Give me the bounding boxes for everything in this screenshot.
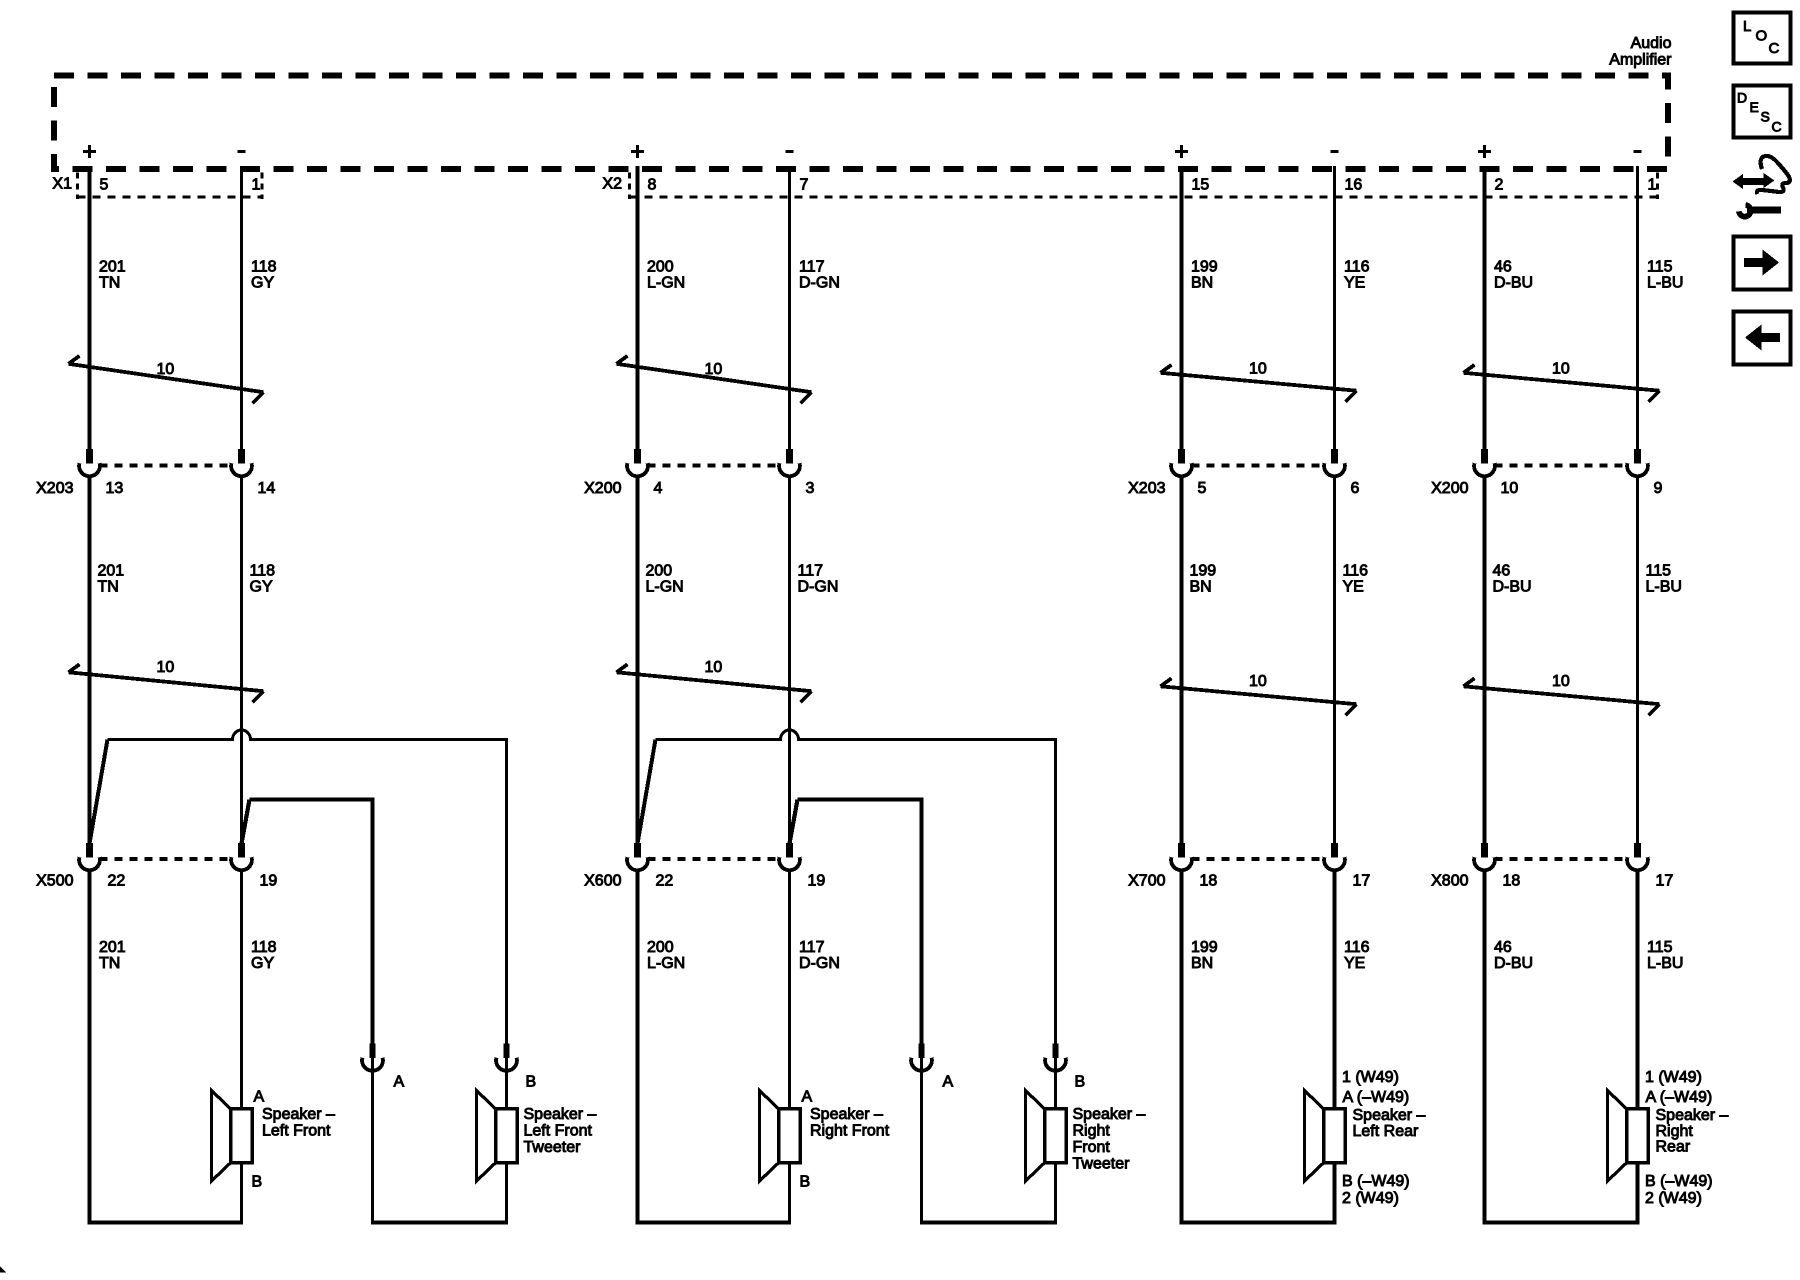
svg-text:118: 118: [251, 259, 277, 276]
svg-text:GY: GY: [251, 955, 274, 972]
svg-text:GY: GY: [250, 579, 273, 596]
wire label 46 D-BU (row3): [1494, 939, 1533, 972]
svg-text:115: 115: [1646, 563, 1672, 580]
bottom rail rear speaker: [1483, 1221, 1640, 1225]
svg-text:116: 116: [1344, 939, 1370, 956]
svg-text:117: 117: [799, 939, 825, 956]
svg-text:46: 46: [1493, 563, 1511, 580]
svg-text:46: 46: [1494, 939, 1512, 956]
branch wire to tweeter B (hop over 118 wire): [108, 730, 507, 1044]
speaker terminal labels bottom: [1342, 1173, 1410, 1207]
in-line connector X500 pin 22 symbol: [79, 843, 100, 870]
wire label 117 D-GN (row3): [799, 939, 840, 972]
wire 46 D-BU segment X200 to X800: [1483, 478, 1487, 844]
svg-text:L-BU: L-BU: [1647, 955, 1683, 972]
svg-text:Rear: Rear: [1656, 1139, 1691, 1156]
svg-text:10: 10: [1552, 673, 1570, 690]
wire 201 TN tweeter B to speaker: [505, 1058, 508, 1111]
wire label 118 GY (row2): [250, 563, 276, 596]
wire label 199 BN (row1): [1191, 259, 1218, 292]
wire label 115 L-BU (row3): [1647, 939, 1683, 972]
speaker B wire to bottom rail: [240, 1163, 243, 1225]
svg-text:10: 10: [1501, 480, 1519, 497]
wire 200 L-GN segment below X600: [636, 872, 640, 1225]
X600 dashed connector line: [648, 857, 780, 861]
svg-text:C: C: [1772, 119, 1782, 135]
wire label 117 D-GN (row1): [799, 259, 840, 292]
svg-text:Right: Right: [1073, 1123, 1111, 1140]
twisted pair symbol 10 (upper, group 1): [69, 356, 264, 403]
svg-text:201: 201: [99, 939, 126, 956]
speaker terminal labels bottom: [1645, 1173, 1713, 1207]
minus sign col 2: [237, 150, 245, 153]
svg-text:Speaker –: Speaker –: [1353, 1107, 1426, 1124]
jump/link icon (double arrow with wrench): [1733, 156, 1790, 217]
in-line connector X203 pin 13 symbol: [79, 449, 100, 476]
svg-text:B: B: [1075, 1074, 1086, 1091]
in-line connector X203 pin 14 symbol: [231, 449, 252, 476]
wire 200 L-GN segment amp to X200: [636, 166, 640, 450]
X700 dashed connector line: [1192, 857, 1325, 861]
X800 dashed connector line: [1495, 857, 1628, 861]
bottom rail speaker: [88, 1221, 243, 1225]
plus sign col 7: [1478, 145, 1491, 158]
svg-text:Tweeter: Tweeter: [1073, 1156, 1131, 1173]
svg-text:B (–W49): B (–W49): [1645, 1173, 1713, 1190]
svg-text:Left Front: Left Front: [524, 1123, 593, 1140]
svg-text:L-GN: L-GN: [647, 275, 685, 292]
svg-text:L-BU: L-BU: [1647, 275, 1683, 292]
tweeter terminal A pin symbol: [362, 1044, 383, 1071]
in-line connector X203 pin 6 symbol: [1324, 449, 1345, 476]
svg-text:D-BU: D-BU: [1494, 275, 1533, 292]
bottom rail speaker: [636, 1221, 791, 1225]
wire label 199 BN (row3): [1191, 939, 1218, 972]
twisted pair symbol 10 (lower, group 4): [1464, 673, 1660, 715]
forward arrow icon box: [1734, 237, 1791, 290]
wire 118 GY segment to speaker A: [240, 872, 243, 1111]
svg-text:201: 201: [98, 563, 125, 580]
svg-text:X200: X200: [584, 480, 621, 497]
branch wire to tweeter B (hop over 117 wire): [656, 730, 1056, 1044]
wire label 201 TN (row1): [99, 259, 126, 292]
svg-text:200: 200: [647, 939, 674, 956]
speaker terminal labels top: [1342, 1069, 1409, 1106]
svg-text:10: 10: [157, 659, 175, 676]
LOC icon letters: [1743, 18, 1780, 57]
svg-text:X800: X800: [1431, 873, 1468, 890]
plus sign col 3: [631, 145, 644, 158]
svg-text:D-GN: D-GN: [799, 275, 840, 292]
svg-text:116: 116: [1343, 563, 1369, 580]
svg-text:E: E: [1750, 99, 1759, 115]
bottom rail tweeter: [371, 1221, 508, 1225]
svg-text:X2: X2: [602, 176, 622, 193]
svg-text:200: 200: [646, 563, 673, 580]
svg-text:Right: Right: [1656, 1123, 1694, 1140]
speaker – left front tweeter: [477, 1091, 518, 1182]
splice diagonal into pin 19: [242, 800, 250, 844]
svg-text:10: 10: [705, 659, 723, 676]
svg-text:Left Front: Left Front: [262, 1123, 331, 1140]
audio amplifier dashed box: [54, 76, 1668, 170]
svg-text:14: 14: [258, 480, 276, 497]
wire 117 D-GN segment X200 to X600: [788, 478, 791, 844]
svg-text:L-GN: L-GN: [646, 579, 684, 596]
tweeter name text: [1073, 1106, 1146, 1173]
svg-text:A: A: [943, 1074, 954, 1091]
connector X2 dotted box: [630, 173, 1658, 200]
wire label 201 TN (row2): [98, 563, 125, 596]
forward arrow: [1744, 250, 1779, 276]
in-line connector X600 pin 19 symbol: [779, 843, 800, 870]
svg-text:199: 199: [1191, 939, 1218, 956]
svg-text:22: 22: [108, 873, 126, 890]
in-line connector X203 pin 5 symbol: [1171, 449, 1192, 476]
wire label 200 L-GN (row3): [647, 939, 685, 972]
svg-text:5: 5: [100, 177, 109, 194]
svg-text:B: B: [526, 1074, 537, 1091]
svg-text:199: 199: [1191, 259, 1218, 276]
svg-text:201: 201: [99, 259, 126, 276]
svg-text:115: 115: [1647, 939, 1673, 956]
branch wire to tweeter A: [798, 800, 922, 1044]
wire label 118 GY (row1): [251, 259, 277, 292]
svg-text:118: 118: [250, 563, 276, 580]
svg-text:19: 19: [808, 873, 826, 890]
in-line connector X200 pin 9 symbol: [1627, 449, 1648, 476]
svg-text:115: 115: [1647, 259, 1673, 276]
in-line connector X200 pin 3 symbol: [779, 449, 800, 476]
connector X1 dotted box: [78, 173, 263, 200]
wire 117 D-GN segment to speaker A: [788, 872, 791, 1111]
svg-text:GY: GY: [251, 275, 274, 292]
wire label 46 D-BU (row1): [1494, 259, 1533, 292]
wire 115 L-BU segment X200 to X800: [1636, 478, 1639, 844]
svg-text:YE: YE: [1344, 955, 1365, 972]
svg-text:Speaker –: Speaker –: [1073, 1106, 1146, 1123]
back arrow icon box: [1734, 312, 1791, 365]
svg-text:22: 22: [656, 873, 674, 890]
svg-text:X200: X200: [1431, 480, 1468, 497]
DESC icon letters: [1737, 90, 1782, 135]
twisted pair symbol 10 (upper, group 4): [1464, 361, 1660, 402]
wire 200 L-GN segment X200 to X600: [636, 478, 640, 844]
wire 46 D-BU segment below X800: [1483, 872, 1487, 1225]
minus sign col 4: [785, 150, 793, 153]
speaker – right rear: [1608, 1091, 1649, 1182]
wire label 118 GY (row3): [251, 939, 277, 972]
wire 116 YE segment amp to X203: [1333, 166, 1336, 450]
speaker name text: [1656, 1107, 1729, 1156]
wire 46 D-BU segment amp to X200: [1483, 166, 1487, 450]
wire label 200 L-GN (row1): [647, 259, 685, 292]
svg-text:A: A: [394, 1074, 405, 1091]
svg-text:B: B: [252, 1174, 263, 1191]
splice diagonal into pin 22: [90, 740, 108, 844]
wire label 199 BN (row2): [1190, 563, 1217, 596]
wire label 46 D-BU (row2): [1493, 563, 1532, 596]
wire 199 BN segment below X700: [1180, 872, 1184, 1225]
wire label 201 TN (row3): [99, 939, 126, 972]
X200 dashed connector line: [648, 463, 780, 467]
in-line connector X800 pin 18 symbol: [1474, 843, 1495, 870]
svg-text:L: L: [1743, 18, 1751, 35]
svg-text:4: 4: [654, 480, 663, 497]
tweeter terminal B pin symbol: [1045, 1044, 1066, 1071]
wire 201 TN segment amp to X203: [88, 166, 92, 450]
speaker terminal labels top: [1645, 1069, 1712, 1106]
svg-text:Speaker –: Speaker –: [524, 1106, 597, 1123]
svg-text:TN: TN: [99, 275, 120, 292]
speaker name text: [810, 1106, 890, 1140]
minus sign col 8: [1633, 150, 1641, 153]
svg-text:BN: BN: [1190, 579, 1212, 596]
svg-text:10: 10: [157, 361, 175, 378]
speaker B wire to bottom rail: [788, 1163, 791, 1225]
svg-text:B: B: [800, 1174, 811, 1191]
svg-text:15: 15: [1192, 177, 1210, 194]
svg-text:13: 13: [106, 480, 124, 497]
wire label 116 YE (row3): [1344, 939, 1370, 972]
wire label 117 D-GN (row2): [798, 563, 839, 596]
in-line connector X200 pin 10 symbol: [1474, 449, 1495, 476]
wire 201 TN segment X203 to X500: [88, 478, 92, 844]
svg-text:YE: YE: [1343, 579, 1364, 596]
svg-text:YE: YE: [1344, 275, 1365, 292]
twisted pair symbol 10 (lower, group 3): [1161, 673, 1357, 715]
svg-text:16: 16: [1345, 177, 1363, 194]
svg-text:10: 10: [705, 361, 723, 378]
wire 200 L-GN tweeter B to speaker: [1054, 1058, 1057, 1111]
svg-text:C: C: [1769, 40, 1780, 57]
minus sign col 6: [1330, 150, 1338, 153]
svg-text:1: 1: [1648, 177, 1657, 194]
svg-text:18: 18: [1200, 873, 1218, 890]
audio amplifier label: [1609, 35, 1672, 69]
svg-text:D: D: [1737, 90, 1747, 106]
twisted pair symbol 10 (lower, group 2): [617, 659, 812, 702]
speaker – Right Front: [760, 1091, 801, 1182]
speaker B wire to bottom rail: [1333, 1163, 1337, 1225]
svg-text:D-BU: D-BU: [1494, 955, 1533, 972]
LOC icon box: [1734, 13, 1791, 64]
svg-text:A: A: [254, 1089, 265, 1106]
svg-text:TN: TN: [99, 955, 120, 972]
X203 dashed connector line: [1192, 463, 1325, 467]
svg-text:X500: X500: [36, 873, 73, 890]
svg-text:Right Front: Right Front: [810, 1123, 890, 1140]
tweeter name text: [524, 1106, 597, 1156]
svg-text:2 (W49): 2 (W49): [1645, 1190, 1702, 1207]
svg-text:Amplifier: Amplifier: [1609, 52, 1672, 69]
svg-text:116: 116: [1344, 259, 1370, 276]
svg-text:Speaker –: Speaker –: [810, 1106, 883, 1123]
branch wire to tweeter A: [250, 800, 373, 1044]
svg-text:1 (W49): 1 (W49): [1342, 1069, 1399, 1086]
tweeter terminal A pin symbol: [911, 1044, 932, 1071]
tweeter B wire to bottom rail: [505, 1163, 508, 1225]
svg-text:Speaker –: Speaker –: [1656, 1107, 1729, 1124]
svg-text:199: 199: [1190, 563, 1217, 580]
svg-text:6: 6: [1351, 480, 1360, 497]
svg-text:10: 10: [1249, 361, 1267, 378]
wire label 200 L-GN (row2): [646, 563, 684, 596]
speaker – left rear: [1305, 1091, 1346, 1182]
svg-text:7: 7: [800, 177, 809, 194]
splice diagonal into pin 19: [790, 800, 798, 844]
tweeter B wire to bottom rail: [1054, 1163, 1057, 1225]
svg-text:Left Rear: Left Rear: [1353, 1123, 1419, 1140]
svg-text:B (–W49): B (–W49): [1342, 1173, 1410, 1190]
X200 dashed connector line: [1495, 463, 1628, 467]
svg-text:117: 117: [799, 259, 825, 276]
svg-text:10: 10: [1249, 673, 1267, 690]
svg-text:D-BU: D-BU: [1493, 579, 1532, 596]
DESC icon box: [1734, 86, 1791, 138]
twisted pair symbol 10 (upper, group 2): [617, 356, 812, 403]
svg-text:O: O: [1756, 28, 1768, 45]
svg-text:17: 17: [1656, 873, 1674, 890]
svg-text:X203: X203: [1128, 480, 1165, 497]
svg-text:118: 118: [251, 939, 277, 956]
wire label 116 YE (row1): [1344, 259, 1370, 292]
svg-text:2: 2: [1495, 177, 1504, 194]
bottom rail rear speaker: [1180, 1221, 1337, 1225]
svg-text:X700: X700: [1128, 873, 1165, 890]
wire 117 D-GN tweeter A down: [920, 1058, 923, 1225]
in-line connector X700 pin 18 symbol: [1171, 843, 1192, 870]
X500 dashed connector line: [100, 857, 232, 861]
back arrow: [1745, 325, 1780, 351]
svg-text:A (–W49): A (–W49): [1646, 1089, 1713, 1106]
in-line connector X700 pin 17 symbol: [1324, 843, 1345, 870]
svg-text:L-BU: L-BU: [1646, 579, 1682, 596]
twisted pair symbol 10 (lower, group 1): [69, 659, 264, 702]
wire label 115 L-BU (row2): [1646, 563, 1682, 596]
in-line connector X600 pin 22 symbol: [627, 843, 648, 870]
wire 117 D-GN segment amp to X200: [788, 166, 791, 450]
X203 dashed connector line: [100, 463, 232, 467]
svg-text:D-GN: D-GN: [799, 955, 840, 972]
speaker – Left Front: [212, 1091, 253, 1182]
svg-text:Audio: Audio: [1631, 35, 1672, 52]
speaker name text: [262, 1106, 335, 1140]
svg-text:Front: Front: [1073, 1139, 1111, 1156]
speaker B wire to bottom rail: [1636, 1163, 1640, 1225]
in-line connector X200 pin 4 symbol: [627, 449, 648, 476]
svg-text:D-GN: D-GN: [798, 579, 839, 596]
wire 116 YE segment X203 to X700: [1333, 478, 1336, 844]
svg-text:3: 3: [806, 480, 815, 497]
svg-text:A: A: [802, 1089, 813, 1106]
wire 115 L-BU segment to speaker: [1636, 872, 1640, 1111]
in-line connector X800 pin 17 symbol: [1627, 843, 1648, 870]
svg-text:X1: X1: [52, 176, 72, 193]
svg-text:46: 46: [1494, 259, 1512, 276]
twisted pair symbol 10 (upper, group 3): [1161, 361, 1357, 402]
wire 201 TN segment below X500: [88, 872, 92, 1225]
svg-text:Speaker –: Speaker –: [262, 1106, 335, 1123]
svg-text:BN: BN: [1191, 275, 1213, 292]
wire 199 BN segment amp to X203: [1180, 166, 1184, 450]
svg-text:L-GN: L-GN: [647, 955, 685, 972]
wire 118 GY segment X203 to X500: [240, 478, 243, 844]
svg-text:17: 17: [1353, 873, 1371, 890]
wire 199 BN segment X203 to X700: [1180, 478, 1184, 844]
svg-text:9: 9: [1654, 480, 1663, 497]
svg-text:200: 200: [647, 259, 674, 276]
svg-text:S: S: [1761, 109, 1770, 125]
svg-text:5: 5: [1198, 480, 1207, 497]
svg-text:Tweeter: Tweeter: [524, 1139, 582, 1156]
speaker – right front tweeter: [1026, 1091, 1067, 1182]
svg-text:A (–W49): A (–W49): [1343, 1089, 1410, 1106]
svg-text:2 (W49): 2 (W49): [1342, 1190, 1399, 1207]
svg-text:19: 19: [260, 873, 278, 890]
wire 115 L-BU segment amp to X200: [1636, 166, 1639, 450]
wire label 115 L-BU (row1): [1647, 259, 1683, 292]
svg-text:1: 1: [252, 177, 261, 194]
svg-text:8: 8: [648, 177, 657, 194]
in-line connector X500 pin 19 symbol: [231, 843, 252, 870]
svg-text:10: 10: [1552, 361, 1570, 378]
svg-text:117: 117: [798, 563, 824, 580]
wire label 116 YE (row2): [1343, 563, 1369, 596]
tweeter terminal B pin symbol: [496, 1044, 517, 1071]
wire 118 GY tweeter A down: [371, 1058, 374, 1225]
svg-text:X600: X600: [584, 873, 621, 890]
plus sign col 5: [1175, 145, 1188, 158]
svg-text:18: 18: [1503, 873, 1521, 890]
page corner mark: [0, 1267, 6, 1273]
speaker name text: [1353, 1107, 1426, 1140]
wire 118 GY segment amp to X203: [240, 166, 243, 450]
svg-text:BN: BN: [1191, 955, 1213, 972]
svg-text:TN: TN: [98, 579, 119, 596]
plus sign col 1: [83, 145, 96, 158]
wire 116 YE segment to speaker: [1333, 872, 1337, 1111]
bottom rail tweeter: [920, 1221, 1057, 1225]
svg-text:1 (W49): 1 (W49): [1645, 1069, 1702, 1086]
splice diagonal into pin 22: [638, 740, 656, 844]
svg-text:X203: X203: [36, 480, 73, 497]
